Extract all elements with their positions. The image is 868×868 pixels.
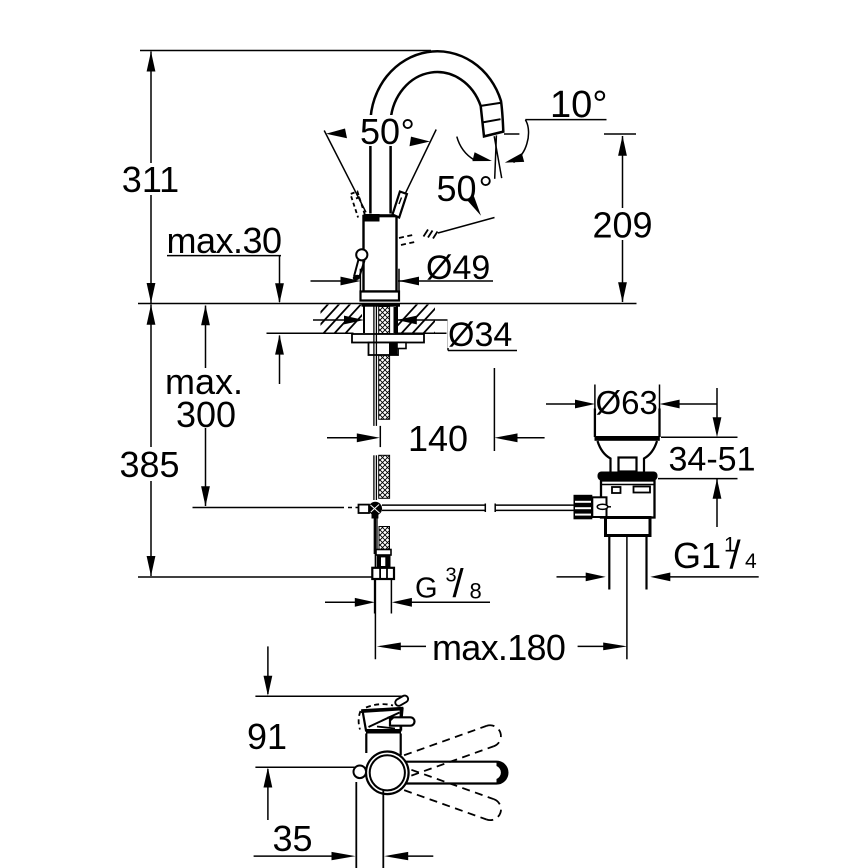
svg-text:140: 140 (408, 418, 468, 459)
svg-text:50: 50 (437, 168, 477, 209)
svg-text:°: ° (401, 111, 415, 152)
svg-text:311: 311 (122, 159, 179, 200)
svg-text:91: 91 (247, 716, 287, 757)
svg-text:Ø49: Ø49 (426, 249, 490, 287)
svg-text:/: / (730, 534, 742, 578)
svg-text:385: 385 (119, 444, 179, 485)
svg-text:Ø63: Ø63 (596, 384, 658, 421)
svg-text:35: 35 (272, 818, 312, 859)
svg-text:Ø34: Ø34 (448, 316, 512, 354)
svg-text:209: 209 (592, 205, 652, 246)
svg-text:°: ° (479, 168, 493, 209)
svg-text:G: G (415, 573, 438, 605)
svg-text:4: 4 (745, 550, 757, 573)
svg-text:max.30: max.30 (167, 220, 282, 261)
svg-text:50: 50 (360, 111, 400, 152)
svg-text:300: 300 (176, 394, 236, 435)
svg-text:G1: G1 (673, 535, 721, 576)
svg-text:max.180: max.180 (432, 627, 565, 668)
svg-text:/: / (453, 562, 465, 606)
svg-text:10°: 10° (550, 84, 607, 126)
svg-text:34-51: 34-51 (669, 441, 756, 479)
svg-text:8: 8 (470, 579, 482, 604)
